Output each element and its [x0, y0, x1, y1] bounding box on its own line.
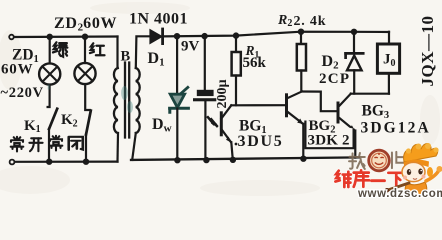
zener Dw [170, 36, 189, 160]
watermark outlined glyph zhao [349, 153, 365, 169]
node lamp1 top [48, 35, 52, 39]
wire lamp1 drop [49, 37, 51, 63]
wire lamp2 drop [84, 37, 86, 63]
svg-text:www.dzsc.com: www.dzsc.com [357, 188, 442, 198]
terminal top-left AC input [9, 35, 14, 40]
label green lamp glyph [53, 42, 67, 56]
svg-text:2CP: 2CP [319, 71, 350, 87]
wire DC bottom rail [131, 157, 359, 160]
terminal bottom-left AC input [10, 160, 15, 165]
teal artifacts [48, 85, 133, 114]
secondary winding bumps [136, 68, 140, 133]
capacitor C 200u [193, 36, 216, 160]
svg-text:JQX—10: JQX—10 [418, 16, 437, 87]
phototransistor BG1 3DU5 [221, 105, 233, 160]
transformer B [114, 36, 151, 161]
svg-text:3DK 2: 3DK 2 [308, 133, 350, 149]
node D2 top [352, 30, 356, 34]
secondary bottom lead [132, 133, 136, 160]
watermark mascot [385, 143, 442, 195]
svg-text:2. 4k: 2. 4k [294, 14, 327, 29]
primary winding lead [116, 37, 118, 69]
svg-text:~220V: ~220V [1, 85, 44, 101]
node C bottom [204, 158, 208, 162]
node R2 top [299, 30, 303, 34]
wire switch K2 to bottom rail [85, 135, 87, 162]
svg-text:3DG12A: 3DG12A [361, 120, 431, 137]
wire lamp1 to switch [48, 85, 50, 107]
relay J0 [377, 32, 399, 94]
wire D2/relay bottom node [351, 93, 389, 95]
node lamp2 top [83, 35, 87, 39]
transistor BG3 3DG12A [338, 94, 355, 158]
switch K2 normally-closed blade [86, 111, 91, 135]
zener D2 2CP [346, 32, 364, 94]
wire top AC rail [14, 35, 118, 38]
svg-text:56k: 56k [243, 55, 267, 71]
node K2 bottom [84, 160, 88, 164]
lamp ZD2 red [74, 63, 95, 84]
node K1 bottom [47, 160, 51, 164]
watermark group [335, 143, 442, 200]
switch K1 normally-open blade [49, 109, 57, 129]
svg-text:3DU5: 3DU5 [238, 133, 284, 150]
node C top [203, 34, 207, 38]
transformer core [125, 63, 129, 138]
primary lead to bottom AC rail [116, 133, 119, 162]
watermark outlined glyph pian [392, 152, 405, 168]
lamp ZD1 green [39, 63, 60, 84]
resistor R1 56k [232, 36, 241, 106]
wire DC top rail [164, 32, 390, 37]
node Dw top [175, 34, 179, 38]
label K1 chang-kai [11, 137, 24, 152]
node Dw bottom [175, 158, 179, 162]
watermark red text wei-ku-yi-xia [335, 170, 404, 187]
wire switch K1 to bottom rail [48, 129, 50, 162]
svg-text:1N 4001: 1N 4001 [129, 11, 188, 28]
svg-text:ZD260W: ZD260W [54, 15, 117, 34]
secondary top lead [136, 36, 151, 68]
svg-text:9V: 9V [181, 39, 200, 55]
CJK glyph labels drawn as strokes [11, 42, 105, 151]
label 3DU5 [235, 143, 238, 146]
label K2 chang-bi [50, 136, 63, 151]
svg-text:60W: 60W [1, 62, 33, 78]
node BG2 emitter bottom [301, 157, 305, 161]
node R1 top [234, 34, 238, 38]
label box BG2 [305, 121, 353, 149]
resistor R2 2.4k [297, 32, 306, 92]
wire lamp2 to switch [85, 84, 90, 110]
svg-text:200µ: 200µ [215, 79, 230, 108]
transistor BG2 3DK2 [287, 91, 304, 158]
watermark badge coin [369, 150, 390, 171]
wire BG2 collector to BG3 base [302, 92, 338, 112]
svg-text:B: B [121, 49, 131, 65]
light arrows into BG1 [208, 117, 218, 127]
node BG1 emitter bottom [231, 158, 235, 162]
wire bottom AC rail [15, 161, 118, 163]
wire BG1 collector to BG2 base [231, 104, 286, 106]
primary winding bumps [114, 68, 118, 133]
label red lamp glyph [90, 43, 105, 55]
diode D1 1N4001 [151, 29, 163, 44]
